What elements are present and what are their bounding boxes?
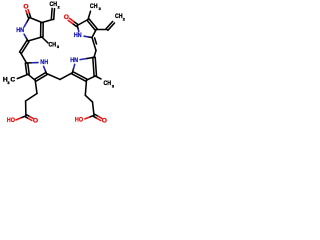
bond CH2-CH2 (right propionate) <box>85 95 92 102</box>
svg-text:CH: CH <box>49 41 57 48</box>
double bond C6=C7 (ring B) <box>28 63 30 74</box>
bond C-OH (right carboxyl) <box>89 115 94 117</box>
svg-text:HN: HN <box>74 32 82 39</box>
svg-text:CH: CH <box>104 80 112 87</box>
svg-text:HO: HO <box>75 116 83 123</box>
double bond C18=C17 (ring D) <box>89 19 97 29</box>
bond C13-C12 (ring C) <box>87 76 96 80</box>
bond C9-N22 (ring B) <box>45 70 46 74</box>
bond C9-C10 (to central CH2) <box>47 74 61 80</box>
bond C7-CH3 (ring B methyl) <box>17 74 28 78</box>
bond C12-CH2 (right propionate) <box>85 80 86 95</box>
double bond CH=CH2 vinyl D <box>106 21 113 28</box>
bond C19-C18 (ring D) <box>77 20 88 26</box>
double bond C12=C11 (ring C) <box>72 74 86 81</box>
svg-text:HN: HN <box>70 57 78 64</box>
double bond C2=C3 (ring A) <box>42 23 44 38</box>
double bond C=O (left carboxyl) <box>26 115 29 117</box>
svg-text:HN: HN <box>16 27 24 34</box>
svg-text:O: O <box>102 118 107 125</box>
svg-text:O: O <box>33 118 38 125</box>
bond C14-C15 (methine CD) <box>94 51 96 58</box>
bond C17-C16 (ring D) <box>92 30 96 38</box>
bond C-OH (left carboxyl) <box>21 116 26 118</box>
svg-text:O: O <box>23 4 28 11</box>
bond C13-CH3 (ring C methyl) <box>95 76 101 79</box>
svg-text:NH: NH <box>40 59 48 66</box>
bond CH2-COOH (right propionate) <box>93 102 95 115</box>
svg-text:HO: HO <box>7 117 15 124</box>
bond N24-C19 (ring D) <box>77 28 80 31</box>
double bond C15=C16 inner line <box>95 38 97 44</box>
double bond C1=O1 (ring A carbonyl) <box>28 10 29 14</box>
double bond C15=C16 (methine to ring D) <box>92 38 96 51</box>
bond CH2-COOH (left propionate) <box>25 101 27 116</box>
bond C5-C6 (methine to ring B) <box>21 53 27 63</box>
bond CH2-CH2 (left propionate) <box>26 94 37 102</box>
double bond CH=CH2 vinyl A <box>50 8 53 19</box>
bond C16-N24 (ring D) <box>88 36 92 39</box>
double bond C19=O2 (ring D carbonyl) <box>72 23 76 26</box>
bond N23-C14 (ring C) <box>80 58 87 59</box>
bond C6-N22 (ring B) <box>27 62 33 64</box>
bond C11-N23 (ring C) <box>72 69 73 73</box>
svg-text:CH: CH <box>115 13 123 20</box>
bond C18-CH3 (ring D methyl) <box>88 11 91 19</box>
svg-text:C: C <box>10 77 15 84</box>
bond C7-C8 (ring B) <box>28 74 35 80</box>
bond C1-C2 (ring A) <box>30 18 43 23</box>
bond C3-C4 (ring A) <box>28 37 42 41</box>
double bond C8=C9 (ring B) <box>35 72 46 79</box>
double bond C4=C5 methine AB <box>22 42 30 54</box>
bond C17-CH vinyl D <box>96 29 107 31</box>
bond C2-CH vinyl A <box>42 20 53 23</box>
bond C3-CH3 (ring A methyl) <box>42 37 48 43</box>
svg-text:CH: CH <box>90 3 98 10</box>
double bond C14=C13 (ring C) <box>95 57 96 76</box>
svg-text:O: O <box>64 14 69 21</box>
bond C10-C11 (central CH2 to ring C) <box>60 73 72 80</box>
svg-text:CH: CH <box>50 1 58 8</box>
bond C8-CH2 (left propionate) <box>35 80 37 93</box>
bond C4-N21 (ring A) <box>26 38 28 41</box>
double bond C=O (right carboxyl) <box>95 114 99 116</box>
bond C1-N21 (ring A) <box>27 18 30 23</box>
